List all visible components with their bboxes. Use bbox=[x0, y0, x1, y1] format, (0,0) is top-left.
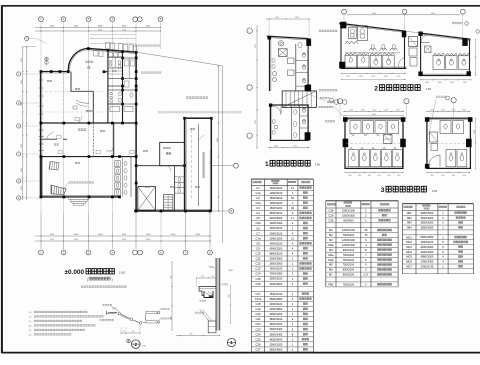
toilet detail 2 left bottom dims bbox=[341, 73, 406, 80]
svg-text:C11: C11 bbox=[256, 257, 261, 261]
door-window schedule table left bbox=[251, 179, 313, 352]
svg-text:7540X4410: 7540X4410 bbox=[270, 293, 283, 296]
svg-text:1150: 1150 bbox=[368, 175, 372, 177]
svg-text:C2: C2 bbox=[256, 196, 260, 200]
room labels plan bbox=[47, 70, 200, 188]
svg-text:M5: M5 bbox=[329, 263, 333, 267]
svg-text:C9: C9 bbox=[256, 247, 260, 251]
svg-text:2000X2100: 2000X2100 bbox=[270, 278, 283, 281]
svg-text:C12: C12 bbox=[256, 262, 261, 266]
svg-text:2800X2100: 2800X2100 bbox=[270, 212, 283, 215]
bottom-right grid bubble leader bbox=[211, 209, 234, 214]
svg-text:MC3: MC3 bbox=[406, 245, 412, 249]
svg-text:1200X2100: 1200X2100 bbox=[342, 239, 355, 242]
toilet detail 1 upper fixtures bbox=[272, 41, 308, 91]
toilet detail 3 left plan columns bbox=[343, 117, 406, 147]
svg-text:4800X2100: 4800X2100 bbox=[270, 318, 283, 321]
svg-text:FM1: FM1 bbox=[328, 283, 334, 287]
svg-text:4500: 4500 bbox=[98, 29, 102, 31]
svg-text:1050: 1050 bbox=[462, 175, 466, 177]
svg-text:JM4: JM4 bbox=[407, 226, 413, 230]
svg-text:1:60: 1:60 bbox=[426, 87, 432, 91]
svg-text:4080X2300: 4080X2300 bbox=[421, 256, 434, 259]
toilet detail 3 left plan walls bbox=[345, 118, 403, 168]
svg-text:4000X2100: 4000X2100 bbox=[270, 227, 283, 230]
detail number circle 2 bbox=[132, 340, 147, 349]
door-window schedule table middle bbox=[326, 201, 398, 287]
plan level mark bbox=[106, 149, 114, 153]
toilet detail 2 left interior stalls bbox=[345, 26, 400, 69]
interior partition x93 lower bbox=[92, 123, 94, 157]
svg-text:4425: 4425 bbox=[50, 239, 54, 241]
svg-text:1200: 1200 bbox=[122, 29, 126, 31]
svg-text:600: 600 bbox=[229, 295, 231, 298]
toilet detail 1 right leader texts bbox=[311, 30, 347, 123]
svg-text:6800X2100: 6800X2100 bbox=[270, 253, 283, 256]
svg-text:1050: 1050 bbox=[452, 110, 456, 112]
svg-text:1200: 1200 bbox=[359, 76, 363, 78]
leader text: toilet 1 ref bbox=[69, 182, 94, 184]
svg-text:2000X2800: 2000X2800 bbox=[270, 308, 283, 311]
toilet detail 3 left top stall row bbox=[350, 121, 399, 136]
toilet detail 3 top bubbles and leaders bbox=[319, 96, 457, 135]
svg-text:JM1: JM1 bbox=[407, 211, 413, 215]
svg-text:1050: 1050 bbox=[430, 110, 434, 112]
svg-text:1541X2100: 1541X2100 bbox=[342, 210, 355, 213]
svg-text:2480X2100: 2480X2100 bbox=[421, 241, 434, 244]
bottom grid bubbles bbox=[39, 250, 213, 255]
left grid bubbles bbox=[17, 36, 47, 200]
svg-text:1500X1800: 1500X1800 bbox=[342, 214, 355, 217]
stairwell X-braced box bbox=[138, 187, 156, 211]
floor plan grid bubbles top bbox=[39, 17, 163, 22]
svg-text:M1: M1 bbox=[329, 228, 333, 232]
toilet detail 1 title bbox=[265, 160, 321, 168]
svg-text:1050: 1050 bbox=[441, 110, 445, 112]
svg-text:M3: M3 bbox=[329, 238, 333, 242]
svg-text:MC7: MC7 bbox=[406, 264, 412, 268]
toilet detail 2 left plan columns bbox=[339, 22, 406, 69]
svg-text:4.): 4.) bbox=[29, 325, 32, 327]
svg-text:240: 240 bbox=[190, 334, 193, 336]
svg-text:5.): 5.) bbox=[29, 330, 32, 332]
floor plan column grid vertical lines bbox=[41, 22, 210, 249]
svg-text:M7: M7 bbox=[329, 273, 333, 277]
svg-text:900X2100: 900X2100 bbox=[343, 274, 355, 277]
svg-text:17: 17 bbox=[291, 216, 294, 220]
boundary vertical line right bbox=[222, 66, 224, 243]
svg-text:C26: C26 bbox=[256, 342, 261, 346]
stepped flashing detail drawing bbox=[107, 311, 146, 324]
door swing room E bbox=[47, 133, 54, 140]
svg-text:C18: C18 bbox=[256, 302, 261, 306]
right wing room B walls bbox=[160, 142, 185, 165]
svg-text:1:60: 1:60 bbox=[315, 163, 321, 167]
right wing row E bubble bbox=[211, 163, 238, 168]
garage toilet cells bbox=[175, 177, 185, 193]
svg-text:1150: 1150 bbox=[377, 175, 381, 177]
svg-text:7500X2100: 7500X2100 bbox=[270, 268, 283, 271]
core block fixtures bbox=[109, 53, 135, 112]
svg-text:2425: 2425 bbox=[274, 146, 278, 148]
cornice parapet label bbox=[209, 266, 216, 268]
svg-text:C13: C13 bbox=[256, 267, 261, 271]
toilet detail 2 left door bbox=[398, 58, 404, 67]
svg-text:C22: C22 bbox=[256, 322, 261, 326]
svg-text:6600X2800: 6600X2800 bbox=[270, 298, 283, 301]
toilet detail 1 lower room columns bbox=[269, 85, 311, 140]
svg-text:3000X1400: 3000X1400 bbox=[270, 333, 283, 336]
svg-text:800X2100: 800X2100 bbox=[343, 269, 355, 272]
svg-text:3: 3 bbox=[381, 187, 385, 194]
svg-text:4000X1200: 4000X1200 bbox=[270, 247, 283, 250]
svg-text:3300: 3300 bbox=[21, 58, 23, 62]
svg-text:±0.000: ±0.000 bbox=[106, 151, 113, 153]
svg-text:2000X2100: 2000X2100 bbox=[270, 232, 283, 235]
entrance arc wall bbox=[68, 48, 88, 69]
svg-text:2325: 2325 bbox=[295, 17, 299, 19]
toilet detail 1 lower fixtures bbox=[272, 105, 308, 140]
svg-text:600: 600 bbox=[170, 276, 172, 279]
hall name label bbox=[86, 61, 94, 69]
svg-text:JM3: JM3 bbox=[407, 221, 413, 225]
plan columns (black) bbox=[40, 47, 213, 212]
room partition row E left bbox=[40, 138, 68, 140]
door swing lobby bbox=[75, 116, 82, 123]
svg-text:6000: 6000 bbox=[431, 13, 435, 15]
svg-text:700: 700 bbox=[201, 276, 204, 278]
svg-text:1150: 1150 bbox=[397, 175, 401, 177]
svg-text:3000X3000: 3000X3000 bbox=[421, 217, 434, 220]
svg-text:C21: C21 bbox=[256, 317, 261, 321]
svg-text:C8: C8 bbox=[256, 241, 260, 245]
svg-text:C20: C20 bbox=[256, 312, 261, 316]
svg-text:3.): 3.) bbox=[29, 321, 32, 323]
door label boxes bbox=[57, 118, 135, 154]
left exterior wall bbox=[39, 72, 44, 197]
svg-text:2800X2600: 2800X2600 bbox=[270, 263, 283, 266]
toilet detail 3 right plan walls bbox=[427, 118, 471, 168]
svg-text:750X2100: 750X2100 bbox=[343, 254, 355, 257]
svg-text:2000X1200: 2000X1200 bbox=[270, 343, 283, 346]
svg-text:2700: 2700 bbox=[474, 130, 476, 134]
cornice bottom-left box bbox=[208, 321, 216, 333]
svg-text:1200: 1200 bbox=[373, 110, 377, 112]
left dimension lines bbox=[21, 46, 36, 200]
svg-text:M4: M4 bbox=[329, 248, 333, 252]
svg-text:1050: 1050 bbox=[430, 175, 434, 177]
entrance arc inner line bbox=[70, 50, 89, 70]
svg-text:2400X2300: 2400X2300 bbox=[421, 246, 434, 249]
svg-text:1200: 1200 bbox=[384, 110, 388, 112]
interior grid dashed lines bbox=[41, 50, 107, 123]
svg-text:2000X1200: 2000X1200 bbox=[270, 313, 283, 316]
svg-text:1780X2450: 1780X2450 bbox=[421, 261, 434, 264]
svg-text:1400: 1400 bbox=[438, 82, 442, 84]
toilet detail 2 right side dim bbox=[475, 30, 480, 76]
toilet detail 3 bottom dims bbox=[345, 172, 471, 177]
svg-text:1500X2100: 1500X2100 bbox=[270, 197, 283, 200]
small rooms above sloped wall bbox=[94, 43, 137, 57]
svg-text:40: 40 bbox=[123, 331, 125, 333]
svg-text:C14: C14 bbox=[256, 272, 261, 276]
svg-text:150: 150 bbox=[132, 331, 135, 333]
cornice top dim bbox=[196, 276, 216, 286]
svg-text:1400: 1400 bbox=[450, 82, 454, 84]
svg-text:C24: C24 bbox=[256, 332, 261, 336]
svg-text:C25: C25 bbox=[256, 337, 261, 341]
svg-text:3000: 3000 bbox=[122, 239, 126, 241]
svg-text:C17: C17 bbox=[256, 292, 261, 296]
core block partitions bbox=[108, 58, 136, 105]
toilet detail 2 top grid bubbles bbox=[342, 9, 469, 38]
toilet detail 3 left bottom stall row bbox=[349, 147, 403, 167]
right exterior wall of main block bbox=[135, 52, 137, 211]
svg-text:3000: 3000 bbox=[146, 239, 150, 241]
toilet detail 2 right plan columns bbox=[418, 32, 471, 76]
lobby partition walls bbox=[70, 72, 93, 124]
wall row B interior bbox=[40, 156, 137, 158]
leader text: toilet 3 ref bbox=[141, 72, 161, 74]
svg-text:M4b: M4b bbox=[328, 258, 334, 262]
svg-text:120: 120 bbox=[211, 276, 214, 278]
svg-text:C2a: C2a bbox=[256, 201, 261, 205]
svg-text:2000X2600: 2000X2600 bbox=[270, 217, 283, 220]
sheet border left bbox=[1, 5, 3, 353]
svg-text:1050: 1050 bbox=[452, 175, 456, 177]
toilet detail 1 left dim line and bubbles bbox=[247, 25, 258, 149]
right side vertical dimension bbox=[217, 65, 219, 211]
toilet detail 3 side dim right bbox=[474, 118, 476, 169]
leader line toilet1 bbox=[64, 183, 68, 188]
cornice left dims bbox=[170, 261, 232, 336]
svg-text:3000X3000: 3000X3000 bbox=[421, 227, 434, 230]
svg-text:MC2: MC2 bbox=[406, 240, 412, 244]
svg-text:13: 13 bbox=[364, 233, 367, 237]
svg-text:1200: 1200 bbox=[384, 76, 388, 78]
flashing anchor symbol bbox=[127, 339, 131, 343]
flashing right branch pieces bbox=[146, 311, 160, 323]
bottom exterior wall right wing bbox=[134, 210, 211, 211]
leader text: floor finish note bbox=[186, 97, 208, 99]
svg-text:±0.000: ±0.000 bbox=[65, 269, 85, 276]
svg-text:1200: 1200 bbox=[396, 110, 400, 112]
svg-text:1200: 1200 bbox=[371, 76, 375, 78]
svg-text:5500X4500: 5500X4500 bbox=[270, 348, 283, 351]
svg-text:5500X4950: 5500X4950 bbox=[421, 236, 434, 239]
toilet detail 3 right interior bbox=[429, 121, 467, 167]
cornice section wall bar bbox=[216, 258, 220, 331]
svg-text:1.): 1.) bbox=[29, 312, 32, 314]
toilet detail 3 right plan columns bbox=[425, 117, 473, 168]
site boundary sloped line bbox=[136, 52, 222, 66]
sheet border bottom bbox=[2, 352, 480, 354]
toilet detail 3 left mid shaft bbox=[384, 135, 393, 144]
svg-text:1050: 1050 bbox=[441, 175, 445, 177]
svg-text:40: 40 bbox=[291, 206, 294, 210]
svg-text:1250X2100: 1250X2100 bbox=[270, 202, 283, 205]
vertical wall below arc bbox=[67, 70, 69, 73]
svg-text:MC4: MC4 bbox=[406, 250, 412, 254]
entrance steps bbox=[69, 197, 89, 205]
svg-text:4620X4870: 4620X4870 bbox=[270, 338, 283, 341]
svg-text:C7a: C7a bbox=[256, 236, 261, 240]
svg-text:1500X1200: 1500X1200 bbox=[270, 207, 283, 210]
garage partitions bbox=[136, 166, 185, 211]
svg-text:C1a: C1a bbox=[256, 191, 261, 195]
svg-text:1200X2100: 1200X2100 bbox=[342, 244, 355, 247]
svg-text:750X2100: 750X2100 bbox=[343, 234, 355, 237]
svg-text:C5: C5 bbox=[256, 216, 260, 220]
svg-text:1150: 1150 bbox=[358, 175, 362, 177]
toilet detail 2 left plan walls bbox=[339, 23, 406, 69]
svg-text:M3a: M3a bbox=[328, 243, 334, 247]
svg-text:1:100: 1:100 bbox=[119, 270, 126, 274]
svg-text:C10: C10 bbox=[256, 252, 261, 256]
toilet detail 2 title bbox=[374, 85, 431, 93]
level symbol in lobby bbox=[45, 57, 49, 65]
hall partition stub at row F bbox=[103, 70, 108, 73]
svg-text:2: 2 bbox=[374, 85, 378, 92]
wall row D interior bbox=[40, 122, 137, 124]
svg-text:54: 54 bbox=[291, 196, 294, 200]
leader text: toilet 2 ref bbox=[135, 45, 160, 47]
svg-text:600X600: 600X600 bbox=[343, 219, 354, 222]
svg-text:900: 900 bbox=[170, 317, 172, 320]
svg-text:3000X2400: 3000X2400 bbox=[270, 328, 283, 331]
svg-text:M4a: M4a bbox=[328, 253, 334, 257]
toilet detail 1 mid stair bbox=[282, 91, 316, 108]
cornice gutter channel bbox=[204, 291, 213, 298]
svg-text:JM2: JM2 bbox=[407, 216, 413, 220]
top sloped exterior wall bbox=[88, 48, 136, 53]
leader text: long precast note bbox=[158, 111, 241, 113]
svg-text:1400: 1400 bbox=[463, 82, 467, 84]
subtitle office building plan bbox=[87, 277, 113, 281]
flashing detail small dims bbox=[121, 325, 141, 335]
svg-text:C29: C29 bbox=[328, 213, 333, 217]
micro dimension cluster above plan bbox=[90, 35, 136, 44]
top dimension lines bbox=[35, 26, 161, 32]
svg-text:2: 2 bbox=[135, 342, 138, 347]
toilet detail 2 shaft between plans bbox=[409, 37, 418, 67]
general notes list bbox=[29, 311, 103, 336]
cornice stepped profile bbox=[199, 286, 216, 295]
svg-text:MC1: MC1 bbox=[406, 235, 412, 239]
bottom dimension lines plan bbox=[35, 213, 211, 250]
svg-text:C27: C27 bbox=[256, 348, 261, 352]
toilet detail 2 right plan walls bbox=[420, 33, 471, 76]
vehicle ramp label bbox=[199, 135, 205, 178]
toilet detail 2 right bottom dims bbox=[420, 79, 472, 84]
svg-text:1250X2100: 1250X2100 bbox=[270, 192, 283, 195]
svg-text:3300: 3300 bbox=[21, 144, 23, 148]
stair-toilet block walls upper bbox=[108, 50, 123, 123]
svg-text:1200: 1200 bbox=[361, 110, 365, 112]
svg-text:750X2100: 750X2100 bbox=[343, 264, 355, 267]
garage stair treads bbox=[163, 195, 173, 211]
svg-text:C17a: C17a bbox=[255, 297, 262, 301]
svg-text:1: 1 bbox=[265, 161, 269, 168]
svg-text:1200: 1200 bbox=[349, 110, 353, 112]
svg-text:MC6: MC6 bbox=[406, 260, 412, 264]
svg-text:11: 11 bbox=[291, 236, 294, 240]
svg-text:750X2100: 750X2100 bbox=[343, 283, 355, 286]
wall row F upper-left bbox=[41, 72, 69, 74]
toilet detail 1 upper room walls bbox=[267, 36, 309, 91]
door-window schedule table right bbox=[402, 204, 473, 274]
svg-text:3300: 3300 bbox=[21, 168, 23, 172]
toilet detail 1 lower room walls bbox=[270, 105, 308, 140]
cornice diagonal leaders bbox=[200, 309, 212, 321]
svg-text:C30: C30 bbox=[328, 218, 333, 222]
svg-text:3500X3000: 3500X3000 bbox=[421, 222, 434, 225]
cornice leader texts bbox=[195, 284, 228, 314]
main title +-0.000 floor plan bbox=[65, 269, 126, 276]
svg-text:4800X1200: 4800X1200 bbox=[270, 323, 283, 326]
svg-text:4000X2100: 4000X2100 bbox=[270, 242, 283, 245]
svg-text:1200: 1200 bbox=[397, 76, 401, 78]
svg-text:C17: C17 bbox=[363, 273, 368, 277]
svg-text:3300: 3300 bbox=[21, 80, 23, 84]
svg-text:1150: 1150 bbox=[348, 175, 352, 177]
svg-text:M2: M2 bbox=[329, 233, 333, 237]
svg-text:C1: C1 bbox=[256, 186, 260, 190]
svg-text:2000X1200: 2000X1200 bbox=[270, 237, 283, 240]
svg-text:6000: 6000 bbox=[372, 13, 376, 15]
svg-text:3300: 3300 bbox=[21, 102, 23, 106]
svg-text:2000X2600: 2000X2600 bbox=[270, 258, 283, 261]
svg-text:C28: C28 bbox=[328, 209, 333, 213]
vehicle ramp room walls bbox=[185, 118, 212, 211]
svg-text:C4: C4 bbox=[256, 211, 260, 215]
svg-text:4725: 4725 bbox=[255, 120, 257, 124]
svg-text:5250X3000: 5250X3000 bbox=[421, 212, 434, 215]
svg-text:3475: 3475 bbox=[255, 44, 257, 48]
svg-text:1500X2100: 1500X2100 bbox=[270, 187, 283, 190]
svg-text:750X2100: 750X2100 bbox=[343, 259, 355, 262]
svg-text:45: 45 bbox=[364, 228, 367, 232]
toilet detail 1 upper room columns bbox=[268, 36, 312, 91]
toilet detail 1 bottom dim bbox=[268, 146, 310, 148]
svg-text:2000X2100: 2000X2100 bbox=[270, 303, 283, 306]
svg-text:3000X1400: 3000X1400 bbox=[270, 222, 283, 225]
plan toilet stalls lower right bbox=[115, 157, 131, 197]
svg-text:C3: C3 bbox=[256, 206, 260, 210]
svg-text:C16: C16 bbox=[256, 282, 261, 286]
svg-text:4320X2600: 4320X2600 bbox=[270, 283, 283, 286]
flashing detail leader texts bbox=[100, 304, 172, 321]
interior partition x113 lower bbox=[113, 123, 115, 157]
svg-text:7000X1950: 7000X1950 bbox=[270, 273, 283, 276]
svg-text:C15: C15 bbox=[256, 277, 261, 281]
svg-text:2.): 2.) bbox=[29, 316, 32, 318]
lobby reception desk bbox=[73, 100, 89, 109]
bottom exterior wall left part bbox=[40, 196, 120, 197]
svg-text:7900: 7900 bbox=[217, 138, 219, 142]
svg-text:1100: 1100 bbox=[293, 146, 297, 148]
svg-text:2780X2730: 2780X2730 bbox=[421, 265, 434, 268]
svg-text:3300: 3300 bbox=[74, 239, 78, 241]
svg-text:1200: 1200 bbox=[346, 76, 350, 78]
door swing garage bbox=[165, 165, 171, 171]
toilet detail 1 top dimension line bbox=[266, 17, 310, 38]
svg-text:1050: 1050 bbox=[462, 110, 466, 112]
svg-text:1400: 1400 bbox=[425, 82, 429, 84]
svg-text:6.): 6.) bbox=[29, 334, 32, 336]
svg-text:1475: 1475 bbox=[275, 17, 279, 19]
svg-text:2000X2300: 2000X2300 bbox=[421, 251, 434, 254]
